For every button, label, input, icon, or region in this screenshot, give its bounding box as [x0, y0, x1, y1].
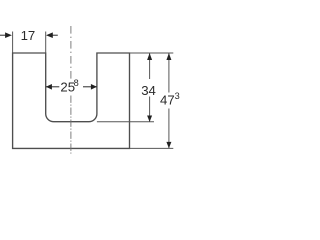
dim 34: bottom arrow — [147, 116, 152, 122]
extension line bottom right — [130, 147, 174, 149]
svg-text:47: 47 — [160, 93, 175, 108]
dim 25.8: line left segment — [46, 86, 59, 88]
dim 47.3: line upper segment — [168, 53, 170, 92]
dim 47.3: bottom arrow — [166, 142, 171, 148]
svg-text:34: 34 — [141, 83, 156, 98]
extension line top right — [130, 52, 174, 54]
extension line mid right (U bottom level) — [97, 121, 154, 123]
dim 17: right arrow — [52, 34, 58, 36]
dim 25.8: left arrow — [46, 84, 52, 90]
dim 25.8: right arrow — [91, 84, 97, 90]
dim 17: extension line left — [12, 32, 14, 53]
dim 34: top arrow — [147, 53, 152, 60]
svg-text:8: 8 — [74, 78, 79, 88]
dim 34: line upper segment — [149, 53, 151, 79]
svg-text:3: 3 — [175, 91, 180, 101]
dim 34: line lower segment — [149, 97, 151, 122]
dim 47.3: line lower segment — [168, 109, 170, 149]
dim 17: extension line right — [45, 32, 47, 53]
dim 47.3: top arrow — [166, 53, 171, 60]
svg-text:17: 17 — [21, 28, 36, 43]
centerline (dash-dot) lower part — [70, 96, 72, 154]
outline of furniture front with U cutout — [13, 53, 130, 148]
dim 25.8: line right segment — [83, 86, 97, 88]
centerline (dash-dot) upper part — [70, 26, 72, 80]
dim 17: left arrow — [0, 34, 6, 36]
